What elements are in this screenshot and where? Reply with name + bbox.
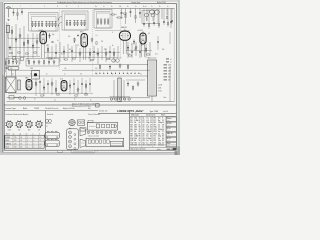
svg-text:ECH 81: ECH 81 <box>167 123 172 125</box>
svg-text:50: 50 <box>61 53 63 55</box>
svg-text:82: 82 <box>139 131 141 133</box>
svg-text:Juni 54: Juni 54 <box>163 111 168 113</box>
svg-text:8n: 8n <box>112 45 114 47</box>
svg-text:42: 42 <box>162 142 164 144</box>
svg-text:32: 32 <box>150 127 152 129</box>
svg-text:EF 41: EF 41 <box>167 128 171 130</box>
svg-text:1M: 1M <box>80 73 82 75</box>
svg-text:2,2: 2,2 <box>40 140 42 142</box>
svg-text:24: 24 <box>162 129 164 131</box>
svg-text:10k: 10k <box>30 73 32 75</box>
svg-text:27: 27 <box>162 131 164 133</box>
svg-text:43: 43 <box>139 138 141 140</box>
svg-text:1,5k: 1,5k <box>64 68 67 70</box>
svg-text:300: 300 <box>162 49 164 51</box>
svg-text:89: 89 <box>139 133 141 135</box>
svg-text:6,3V: 6,3V <box>168 74 171 76</box>
svg-text:IV: IV <box>66 6 67 8</box>
svg-text:50: 50 <box>139 140 141 142</box>
svg-text:47: 47 <box>139 120 141 122</box>
svg-text:54: 54 <box>139 122 141 124</box>
svg-text:220V: 220V <box>168 65 171 67</box>
svg-text:0,1: 0,1 <box>46 45 48 47</box>
svg-text:25p: 25p <box>96 53 98 55</box>
svg-text:2,2: 2,2 <box>40 143 42 145</box>
svg-text:170: 170 <box>14 147 16 149</box>
svg-text:100: 100 <box>68 36 70 38</box>
svg-text:ECH81: ECH81 <box>6 137 11 139</box>
svg-text:B: B <box>97 152 98 154</box>
svg-text:Chassis Ruckwand: Chassis Ruckwand <box>88 114 100 116</box>
svg-text:S 104: S 104 <box>158 91 162 93</box>
svg-text:500: 500 <box>134 49 136 51</box>
svg-text:47: 47 <box>150 133 152 135</box>
svg-text:0,05: 0,05 <box>10 68 13 70</box>
svg-text:1n: 1n <box>57 40 59 42</box>
svg-text:170: 170 <box>14 143 16 145</box>
svg-text:15: 15 <box>162 122 164 124</box>
svg-text:75: 75 <box>139 129 141 131</box>
svg-text:1,25 B: 1,25 B <box>158 85 162 87</box>
svg-text:68: 68 <box>139 127 141 129</box>
svg-text:4,7k: 4,7k <box>155 53 158 55</box>
svg-text:39: 39 <box>162 140 164 142</box>
svg-text:La: La <box>145 6 147 8</box>
svg-text:33: 33 <box>162 136 164 138</box>
svg-text:0,1: 0,1 <box>12 73 14 75</box>
svg-text:713W: 713W <box>34 108 39 110</box>
svg-text:61: 61 <box>139 124 141 126</box>
svg-text:S1: S1 <box>46 126 48 128</box>
svg-text:170: 170 <box>14 137 16 139</box>
svg-text:0,25: 0,25 <box>127 53 130 55</box>
svg-text:EL41: EL41 <box>60 79 63 81</box>
svg-text:30p: 30p <box>52 34 54 36</box>
svg-text:2,2: 2,2 <box>40 137 42 139</box>
svg-text:0,3: 0,3 <box>148 33 150 35</box>
svg-text:EL41: EL41 <box>140 30 144 32</box>
svg-text:0,1: 0,1 <box>96 35 98 37</box>
svg-text:110V: 110V <box>168 71 171 73</box>
svg-text:Type 713W: Type 713W <box>150 111 159 113</box>
svg-text:37: 37 <box>150 129 152 131</box>
svg-text:ECH81: ECH81 <box>39 30 44 32</box>
svg-text:EF41: EF41 <box>6 140 9 142</box>
svg-text:9: 9 <box>162 118 163 120</box>
svg-text:EL 41: EL 41 <box>167 138 171 140</box>
svg-text:40: 40 <box>139 118 141 120</box>
svg-text:0,5: 0,5 <box>77 45 79 47</box>
svg-text:5n: 5n <box>138 30 140 32</box>
svg-text:Loewe Opta: Loewe Opta <box>6 107 17 110</box>
svg-text:V: V <box>78 6 79 8</box>
svg-text:220: 220 <box>95 68 97 70</box>
svg-text:30: 30 <box>162 133 164 135</box>
svg-text:100: 100 <box>119 58 121 60</box>
svg-text:17: 17 <box>150 120 152 122</box>
svg-text:62: 62 <box>150 140 152 142</box>
svg-text:67: 67 <box>150 142 152 144</box>
svg-text:27: 27 <box>150 124 152 126</box>
svg-text:127V: 127V <box>168 68 171 70</box>
svg-text:LOEWE OPTA „Bella“: LOEWE OPTA „Bella“ <box>117 109 144 113</box>
svg-text:12: 12 <box>150 118 152 120</box>
svg-text:2,2: 2,2 <box>40 147 42 149</box>
svg-text:57: 57 <box>139 142 141 144</box>
svg-text:0,1: 0,1 <box>54 100 56 102</box>
svg-text:57: 57 <box>150 138 152 140</box>
svg-text:10k: 10k <box>88 58 90 60</box>
svg-text:170: 170 <box>14 140 16 142</box>
svg-text:EF41: EF41 <box>80 32 84 34</box>
svg-text:21: 21 <box>162 127 164 129</box>
svg-text:0,5: 0,5 <box>140 73 142 75</box>
svg-text:42: 42 <box>150 131 152 133</box>
svg-text:52: 52 <box>150 136 152 138</box>
svg-text:Ub: Ub <box>95 6 97 8</box>
svg-text:36: 36 <box>162 138 164 140</box>
svg-text:96: 96 <box>139 136 141 138</box>
svg-text:EL41: EL41 <box>6 147 9 149</box>
svg-text:22: 22 <box>150 122 152 124</box>
svg-text:18: 18 <box>162 124 164 126</box>
svg-text:12: 12 <box>162 120 164 122</box>
